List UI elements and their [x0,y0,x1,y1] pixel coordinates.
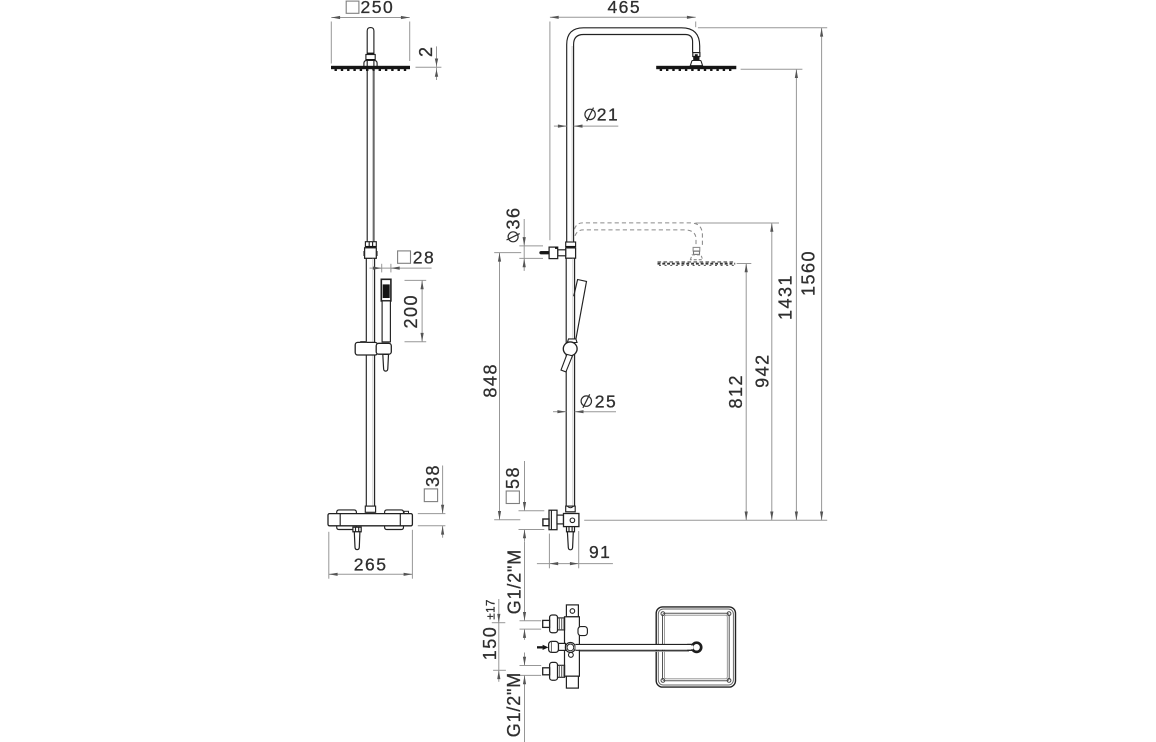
side view: holder pivot circle [563,342,577,356]
front view: pipe dark band [367,53,374,55]
front view: head spray nozzles [335,69,407,71]
side view: arm pipe inner highlight [571,46,573,241]
side view: shower arm pipe outer edge [567,28,700,242]
side view: dimension 942 line and arrows [771,223,773,520]
front view: dimension 265 line and arrows [329,573,413,575]
side view: dimension 1560 line and arrows [821,28,823,521]
svg-text:942: 942 [752,353,772,388]
front view: hand shower handle below holder [383,354,389,371]
front view: dimension sq250 square symbol [346,1,359,13]
side view: diverter coupling body [566,248,576,258]
side view: dashed lowered arm position [574,223,702,247]
svg-text:25: 25 [595,392,617,412]
plan view: wall bar side tab [578,627,587,636]
plan view: wall bar top square with screw [566,605,578,617]
plan view: tolerance dimension lines upper inlet [524,542,526,621]
plan view: upper inlet disc [550,615,558,633]
plan view: lower inlet nut [543,668,550,675]
side view: mixer wall flange [549,510,557,530]
side view: dimension sq58 lines and arrows [524,461,526,511]
plan view: joint ring on wall bar [565,642,575,652]
side view: dashed lowered ball joint [693,247,700,251]
side view: rain shower head plate [656,66,736,69]
side view: dimension 465 extension lines [549,22,551,241]
front view: dimension sq250 line and arrows [331,17,409,19]
plan view: lower inlet disc [550,662,558,680]
plan view: screw below joint [569,653,574,658]
front view: hand shower wand [382,301,390,342]
side view: hand shower handle below pivot [561,354,572,372]
front view: dimension 265 extension lines [328,532,330,579]
front view: mixer handle nut [353,527,361,532]
side view: diverter valve knob [549,247,558,259]
front view: shower rail holder [355,342,377,355]
front view: dimension sq28 square symbol [398,251,411,263]
side view: dimension 1431 line and arrows [795,69,797,520]
front view: cone base above head [364,60,377,66]
svg-text:465: 465 [607,0,641,17]
svg-text:265: 265 [354,555,388,575]
side view: wand holder cap [567,339,577,343]
svg-text:1560: 1560 [799,250,819,296]
front view: mixer supply pipe collar [365,506,375,512]
plan view: tolerance dimension lines lower inlet [524,653,526,666]
front view: dimension 2 lines [416,66,442,68]
side view: dashed head plane extension line [737,263,752,265]
front view: dimension sq38 lines and arrows [442,466,444,514]
svg-text:150: 150 [480,626,500,661]
svg-text:G1/2"M: G1/2"M [504,672,524,737]
front view: pipe collar [366,55,375,60]
front view: head supply pipe with cap [367,28,374,66]
svg-text:±17: ±17 [486,599,498,619]
front view: dimension 200 line and arrows [421,280,423,341]
side view: dimension phi25 line and arrows [553,411,566,413]
side view: mixer lever [567,532,573,550]
svg-text:91: 91 [589,542,611,562]
front view: rain shower head plate [331,66,410,69]
side view: diverter coupling ring [566,242,576,247]
svg-text:G1/2"M: G1/2"M [504,549,524,614]
plan view: upper inlet nut [543,620,550,627]
side view: dimension sq58 square symbol [506,491,519,504]
side view: dimension 848 lines and arrows [499,253,501,520]
front view: sliding coupling ring [365,242,376,247]
plan view: wall bar [565,617,580,676]
svg-text:38: 38 [423,464,443,487]
side view: dashed lowered head plate [658,261,736,263]
side view: dimension phi21 line and arrows [554,125,567,127]
side view: diverter valve handle [540,251,550,254]
front view: mixer bottom escutcheons [337,526,357,530]
plan view: lower inlet adapter [558,665,565,677]
svg-text:1431: 1431 [776,274,796,320]
side view: mixer handle nut [567,527,575,532]
side view: ball joint of head [693,53,700,57]
side view: dimension 812 line and arrows [745,264,747,521]
side view: mixer union nut [566,506,576,512]
plan view: head outer plate [656,607,735,687]
side view: mixer wall fitting square [543,519,549,526]
plan view: flow direction arrow [543,645,549,650]
side view: riser pipe [565,258,567,506]
front view: dimension 200 extension lines [405,279,427,281]
svg-text:200: 200 [401,294,421,329]
side view: dimension phi36 lines and arrows [523,219,525,271]
side view: mixer connector [557,515,564,524]
plan view: shower arm tube [575,645,693,650]
svg-text:58: 58 [503,466,523,489]
plan view: middle outlet knob [549,641,559,652]
plan view: head inner face [663,613,730,680]
plan view: middle outlet stem [559,643,566,650]
side view: dimension phi21 symbol and text [585,109,595,119]
side view: diverter valve stem [558,250,566,256]
side view: head plane extension line [741,68,803,70]
side view: arm top extension line [698,27,827,29]
front view: mixer lever [354,532,360,550]
front view: sliding coupling body [365,248,377,258]
side view: dimension 465 line and arrows [550,16,696,18]
front view: riser pipe lower section [365,258,367,506]
side view: shower arm pipe inner edge [574,35,693,242]
plan view: wall bar bottom square [566,676,578,688]
side view: dashed arm top extension line [695,222,779,224]
side view: hand shower wand tilted [574,280,587,342]
plan view: upper inlet adapter [558,618,565,630]
front view: riser pipe upper section [366,69,368,241]
plan view: dimension 150 line and arrows [498,599,500,682]
svg-text:28: 28 [413,248,435,268]
svg-text:21: 21 [597,105,619,125]
front view: dimension sq28 line, stubs and arrows [370,267,432,269]
side view: dimension phi25 symbol and text [581,396,591,406]
front view: dimension sq250 extension lines [330,22,332,64]
side view: mixer axis extension line [584,519,827,521]
svg-text:250: 250 [361,0,395,17]
plan view: head corner screws [661,612,665,616]
plan view: arm connection ring at head centre [692,643,701,652]
side view: head spray nozzles [660,69,732,71]
side view: mixer body [564,514,579,527]
front view: mixer body [328,514,412,526]
side view: dimension 91 extension lines [548,534,550,569]
svg-text:2: 2 [416,45,436,57]
front view: dimension sq38 square symbol [424,489,437,502]
front view: hand shower head [381,279,391,301]
svg-text:848: 848 [481,363,501,398]
svg-text:36: 36 [503,206,523,229]
front view: mixer top escutcheons [337,510,357,514]
svg-text:812: 812 [726,374,746,409]
side view: dimension 91 line and arrows [537,563,613,565]
